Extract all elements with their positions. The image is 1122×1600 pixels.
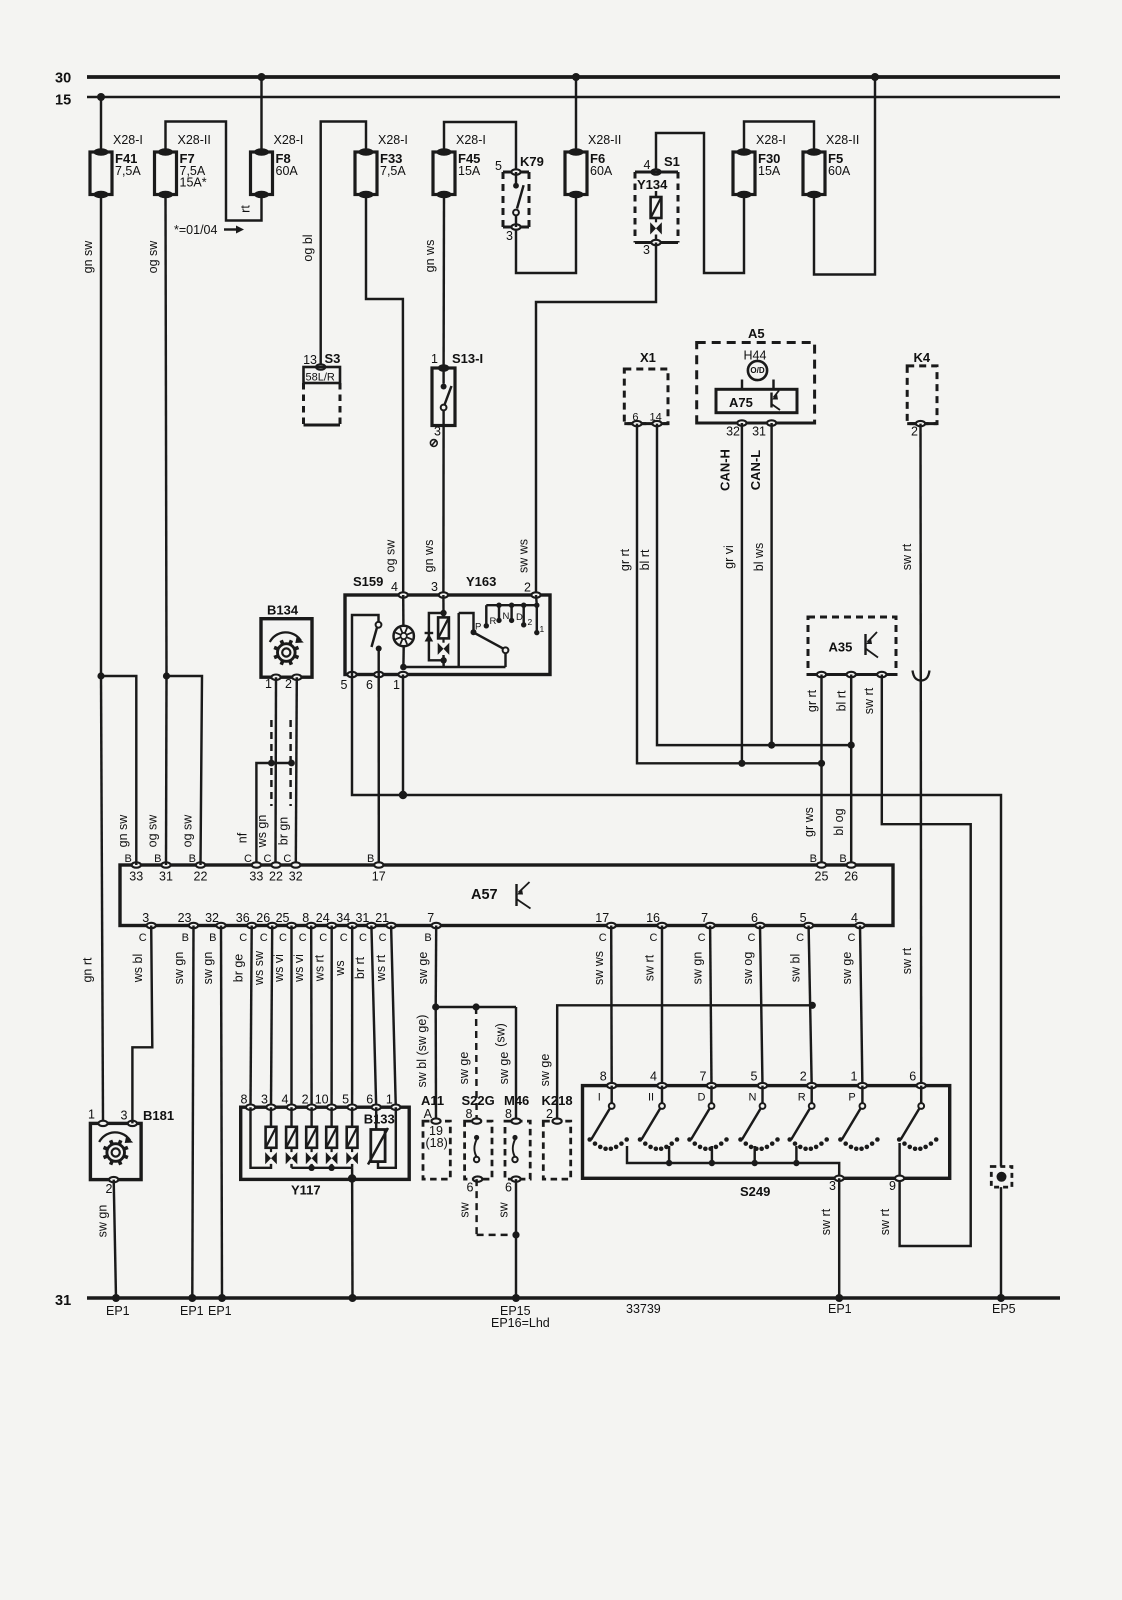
svg-text:26: 26 xyxy=(256,911,270,925)
S249 pin 6 xyxy=(917,1083,926,1088)
wire og sw to A57 B31 xyxy=(165,676,168,865)
A57 pin C34 xyxy=(348,923,357,928)
A57 pin C31 xyxy=(367,923,376,928)
svg-text:34: 34 xyxy=(336,911,350,925)
svg-text:EP1: EP1 xyxy=(208,1304,232,1318)
svg-text:22: 22 xyxy=(194,870,208,884)
svg-text:22: 22 xyxy=(269,870,283,884)
svg-text:bl rt: bl rt xyxy=(835,690,849,711)
svg-text:21: 21 xyxy=(375,911,389,925)
A57 pin C16 xyxy=(657,923,666,928)
Y117 solenoid valve at pin x=311.6 xyxy=(310,1107,312,1127)
A57 pin B7 xyxy=(432,923,441,928)
svg-text:sw: sw xyxy=(497,1201,511,1217)
svg-text:3: 3 xyxy=(643,243,650,257)
S249 switch contact for pin 6 xyxy=(920,1086,922,1104)
svg-text:sw rt: sw rt xyxy=(900,543,914,570)
svg-text:15A: 15A xyxy=(758,164,781,178)
svg-text:C: C xyxy=(748,932,756,944)
Y117 pin 2 xyxy=(307,1105,316,1110)
svg-text:7,5A: 7,5A xyxy=(115,164,141,178)
ground connector box on EP5 wire xyxy=(991,1167,1012,1188)
svg-text:B: B xyxy=(839,853,846,865)
svg-text:31: 31 xyxy=(355,911,369,925)
ground EP5 xyxy=(997,1294,1005,1302)
svg-text:B181: B181 xyxy=(143,1108,174,1123)
dashed variant wires at B134 xyxy=(270,720,272,806)
dashed wire sw ge to S22G pin 8 xyxy=(475,1007,478,1121)
svg-text:60A: 60A xyxy=(276,164,299,178)
svg-text:2: 2 xyxy=(106,1182,113,1196)
svg-text:26: 26 xyxy=(844,870,858,884)
S249 pin 8 xyxy=(607,1083,616,1088)
Y117 pin 3 xyxy=(266,1105,275,1110)
wire A57 to S249 sw gn xyxy=(710,926,711,1086)
svg-text:C: C xyxy=(244,853,252,865)
svg-text:4: 4 xyxy=(650,1070,657,1084)
svg-text:nf: nf xyxy=(236,832,250,843)
wire nf branch to A57 C33 xyxy=(256,763,291,865)
svg-text:A5: A5 xyxy=(748,326,765,341)
svg-text:ws vi: ws vi xyxy=(272,954,286,983)
svg-text:sw gn: sw gn xyxy=(172,952,186,985)
svg-text:B: B xyxy=(182,932,189,944)
svg-text:C: C xyxy=(796,932,804,944)
wire F41 gn sw down / junction xyxy=(100,195,102,677)
svg-text:N: N xyxy=(749,1092,757,1104)
svg-text:sw bl (sw ge): sw bl (sw ge) xyxy=(415,1015,429,1088)
wire gn rt to B181 pin 1 xyxy=(101,676,103,1121)
svg-text:S249: S249 xyxy=(740,1184,770,1199)
svg-text:2: 2 xyxy=(800,1070,807,1084)
S249 pin 7 xyxy=(707,1083,716,1088)
internal selector arm P xyxy=(471,629,477,635)
svg-text:X28-I: X28-I xyxy=(456,133,486,147)
wire A57 to S249 sw ws xyxy=(610,926,613,1086)
svg-text:5: 5 xyxy=(495,159,502,173)
svg-text:6: 6 xyxy=(505,1181,512,1195)
svg-text:2: 2 xyxy=(528,617,533,627)
svg-text:C: C xyxy=(260,932,268,944)
svg-text:4: 4 xyxy=(282,1093,289,1107)
S249 switch contact for pin 4 xyxy=(661,1086,663,1104)
fuse F6 xyxy=(565,152,587,195)
svg-text:C: C xyxy=(279,932,287,944)
svg-text:gn ws: gn ws xyxy=(422,540,436,573)
svg-text:60A: 60A xyxy=(590,164,613,178)
internal illumination lamp xyxy=(402,595,405,626)
selector switch S249 xyxy=(583,1086,950,1179)
svg-text:ws rt: ws rt xyxy=(313,954,327,982)
wire S159 pin 5 and pin 1 to EP5 rail xyxy=(352,675,1001,1167)
svg-text:X28-II: X28-II xyxy=(826,133,859,147)
svg-text:8: 8 xyxy=(466,1107,473,1121)
svg-text:A: A xyxy=(424,1107,433,1121)
svg-text:S159: S159 xyxy=(353,574,383,589)
svg-text:C: C xyxy=(319,932,327,944)
svg-text:32: 32 xyxy=(205,911,219,925)
Y117 solenoid valve at pin x=331.6 xyxy=(330,1107,332,1127)
internal ground rail xyxy=(403,666,505,668)
svg-text:sw rt: sw rt xyxy=(878,1208,892,1235)
fuse F8 xyxy=(251,152,273,195)
Y117 pin 5 xyxy=(348,1105,357,1110)
wire A57 to Y117 ws xyxy=(351,926,354,1108)
svg-text:P: P xyxy=(848,1092,855,1104)
wire A57 to Y117 ws rt xyxy=(330,926,333,1108)
S249 pin 1 xyxy=(858,1083,867,1088)
wire A35 sw rt to S249 pin 9 xyxy=(882,675,971,1247)
Y117 pin 1 xyxy=(391,1105,400,1110)
wire K4 pin 2 sw rt to S249 pin 6 xyxy=(919,424,922,1086)
wire sw ge to M46 pin 8 xyxy=(515,1007,517,1121)
svg-text:(sw): (sw) xyxy=(494,1023,508,1047)
wire F8 bottom rt to F7 top xyxy=(166,122,262,221)
svg-text:8: 8 xyxy=(241,1093,248,1107)
svg-text:X1: X1 xyxy=(640,350,656,365)
svg-text:R: R xyxy=(490,616,497,627)
valve block Y117 xyxy=(241,1107,410,1179)
wire A57 to Y117 br rt xyxy=(371,926,376,1108)
svg-text:B133: B133 xyxy=(364,1112,395,1127)
svg-text:C: C xyxy=(359,932,367,944)
svg-text:31: 31 xyxy=(55,1293,71,1309)
Y117 pin 8 xyxy=(246,1105,255,1110)
S249 switch contact for pin 5 xyxy=(761,1086,763,1104)
internal valve Y163 with diode xyxy=(442,595,445,613)
S249 switch contact for pin 2 xyxy=(810,1086,812,1104)
svg-text:4: 4 xyxy=(391,580,398,594)
svg-text:sw gn: sw gn xyxy=(201,952,215,985)
svg-text:30: 30 xyxy=(55,71,71,87)
S249 internal rail to pin 3 xyxy=(627,1146,839,1178)
svg-text:ws sw: ws sw xyxy=(252,950,266,986)
svg-text:R: R xyxy=(798,1092,806,1104)
sw ge horizontal rail xyxy=(436,1006,516,1008)
svg-text:gn rt: gn rt xyxy=(81,957,95,983)
svg-text:1: 1 xyxy=(540,624,545,634)
svg-text:32: 32 xyxy=(726,425,740,439)
svg-text:X28-I: X28-I xyxy=(378,133,408,147)
svg-text:8: 8 xyxy=(600,1070,607,1084)
A57 pin C4 xyxy=(855,923,864,928)
svg-text:C: C xyxy=(340,932,348,944)
dashed wire S22G pin 6 sw xyxy=(475,1179,477,1235)
svg-text:D: D xyxy=(698,1092,706,1104)
svg-text:5: 5 xyxy=(342,1093,349,1107)
svg-text:15A: 15A xyxy=(458,164,481,178)
S249 pin 5 xyxy=(758,1083,767,1088)
wire B181 pin 2 sw gn to ground EP1 xyxy=(114,1180,116,1298)
svg-text:M46: M46 xyxy=(504,1093,529,1108)
junction on bus 15 xyxy=(97,93,105,101)
svg-text:Y117: Y117 xyxy=(291,1183,321,1198)
svg-text:7: 7 xyxy=(700,1070,707,1084)
svg-text:EP5: EP5 xyxy=(992,1302,1016,1316)
A57 pin C24 xyxy=(327,923,336,928)
svg-text:32: 32 xyxy=(289,870,303,884)
svg-text:C: C xyxy=(283,853,291,865)
svg-text:5: 5 xyxy=(800,911,807,925)
wire bus 30 to F5 bottom loop xyxy=(814,77,875,275)
A57 pin B23 xyxy=(189,923,198,928)
svg-text:3: 3 xyxy=(142,911,149,925)
fuse F45 xyxy=(433,152,455,195)
wire A57 to Y117 br ge xyxy=(251,926,252,1108)
svg-text:X28-II: X28-II xyxy=(588,133,621,147)
module A35 xyxy=(808,617,896,675)
svg-text:6: 6 xyxy=(751,911,758,925)
svg-text:br rt: br rt xyxy=(353,956,367,979)
A57 pin C3 xyxy=(147,923,156,928)
S249 pin 2 xyxy=(807,1083,816,1088)
wire A57 to Y117 ws rt xyxy=(391,926,396,1108)
svg-text:gn ws: gn ws xyxy=(423,240,437,273)
svg-text:(18): (18) xyxy=(426,1136,448,1150)
svg-text:7: 7 xyxy=(427,911,434,925)
svg-text:8: 8 xyxy=(302,911,309,925)
svg-text:rt: rt xyxy=(239,205,253,213)
wire sw bl (sw ge) to A11 xyxy=(434,1007,437,1121)
svg-text:K218: K218 xyxy=(542,1093,573,1108)
svg-text:sw ws: sw ws xyxy=(592,951,606,985)
svg-text:X28-I: X28-I xyxy=(756,133,786,147)
svg-text:EP1: EP1 xyxy=(106,1304,130,1318)
svg-text:B: B xyxy=(209,932,216,944)
wire S159 pin 6 to A57 B17 xyxy=(377,675,380,866)
A57 pin C22 xyxy=(271,862,280,867)
A57 pin B26 xyxy=(847,862,856,867)
wire branch og sw to A57 B22 xyxy=(167,676,203,865)
A57 pin B32 xyxy=(216,923,225,928)
wire A57 to S249 sw og xyxy=(760,926,763,1086)
Y117 solenoid valve at pin x=271 xyxy=(270,1107,272,1127)
svg-text:B: B xyxy=(154,853,161,865)
svg-text:K4: K4 xyxy=(914,350,931,365)
svg-text:EP1: EP1 xyxy=(180,1304,204,1318)
svg-text:15: 15 xyxy=(55,93,71,109)
svg-text:1: 1 xyxy=(431,352,438,366)
A57 pin B33 xyxy=(132,862,141,867)
svg-text:3: 3 xyxy=(431,580,438,594)
svg-text:33: 33 xyxy=(129,870,143,884)
svg-text:C: C xyxy=(379,932,387,944)
svg-text:A35: A35 xyxy=(829,640,853,655)
svg-text:sw ge: sw ge xyxy=(497,1052,511,1085)
wire F30 bottom to S1 pin 4 xyxy=(656,133,744,273)
svg-text:1: 1 xyxy=(88,1108,95,1122)
svg-text:X28-I: X28-I xyxy=(113,133,143,147)
Y117 internal common rail xyxy=(290,1164,292,1168)
svg-text:58L/R: 58L/R xyxy=(306,372,335,384)
svg-text:2: 2 xyxy=(285,677,292,691)
A57 pin C6 xyxy=(755,923,764,928)
svg-text:ws: ws xyxy=(333,960,347,976)
fuse F5 xyxy=(803,152,825,195)
ground Y117 xyxy=(349,1294,357,1302)
svg-text:bl rt: bl rt xyxy=(638,549,652,570)
svg-text:2: 2 xyxy=(911,425,918,439)
svg-text:CAN-L: CAN-L xyxy=(748,450,763,490)
wire A57 to Y117 ws vi xyxy=(290,926,292,1108)
svg-text:og sw: og sw xyxy=(384,539,398,573)
wire B134 pin 1 ws gn to A57 C22 xyxy=(274,677,277,865)
A57 pin C8 xyxy=(307,923,316,928)
A57 pin C5 xyxy=(804,923,813,928)
sw bl horizontal rail to K218 xyxy=(557,1005,812,1121)
wire F41 top to bus 15 xyxy=(100,97,102,152)
Y117 pin 6 xyxy=(372,1105,381,1110)
wire A57 to S249 sw ge xyxy=(860,926,862,1086)
svg-text:5: 5 xyxy=(341,678,348,692)
svg-text:I: I xyxy=(598,1092,601,1104)
wire CAN-H gr vi xyxy=(741,423,743,764)
wire A57 B23 sw gn to EP1 xyxy=(192,926,193,1299)
svg-text:sw rt: sw rt xyxy=(643,954,657,981)
A57 pin C36 xyxy=(247,923,256,928)
svg-text:X28-II: X28-II xyxy=(178,133,211,147)
S249 pin 3 xyxy=(835,1176,844,1181)
svg-text:33739: 33739 xyxy=(626,1302,661,1316)
svg-text:EP1: EP1 xyxy=(828,1302,852,1316)
Y117 pin 10 xyxy=(327,1105,336,1110)
fuse F30 xyxy=(733,152,755,195)
svg-text:B: B xyxy=(189,853,196,865)
svg-text:ws rt: ws rt xyxy=(374,954,388,982)
svg-text:gr vi: gr vi xyxy=(722,545,736,569)
wire S249 pin 3 sw rt to EP1 xyxy=(838,1178,840,1298)
svg-text:3: 3 xyxy=(829,1179,836,1193)
svg-text:sw rt: sw rt xyxy=(819,1208,833,1235)
svg-text:36: 36 xyxy=(236,911,250,925)
S249 switch contact for pin 8 xyxy=(610,1086,612,1104)
svg-text:sw ws: sw ws xyxy=(517,539,531,573)
wire F30 top to F5 top xyxy=(744,122,814,153)
svg-text:A57: A57 xyxy=(471,887,498,903)
svg-text:3: 3 xyxy=(506,229,513,243)
svg-text:15A*: 15A* xyxy=(180,176,207,190)
wire A57 B7 sw ge down xyxy=(434,926,437,1008)
svg-text:sw rt: sw rt xyxy=(862,687,876,714)
svg-text:B: B xyxy=(367,853,374,865)
svg-text:C: C xyxy=(139,932,147,944)
svg-text:II: II xyxy=(648,1092,654,1104)
wire branch gn sw to A57 B33 xyxy=(101,676,136,865)
svg-text:X28-I: X28-I xyxy=(274,133,304,147)
wire F33 bottom og sw to S159 pin 4 xyxy=(366,195,403,593)
wire B134 pin 2 br gn to A57 C32 xyxy=(296,677,297,865)
svg-text:og sw: og sw xyxy=(181,814,195,848)
ground EP1 S249 xyxy=(835,1294,843,1302)
svg-text:sw ge: sw ge xyxy=(457,1052,471,1085)
A57 pin C17 xyxy=(607,923,616,928)
svg-text:O/D: O/D xyxy=(750,366,764,375)
wire A57 to S249 sw bl xyxy=(809,926,812,1086)
svg-text:25: 25 xyxy=(276,911,290,925)
svg-text:C: C xyxy=(848,932,856,944)
ground EP1 B181 xyxy=(112,1294,120,1302)
svg-text:B134: B134 xyxy=(267,603,299,618)
svg-text:B: B xyxy=(424,932,431,944)
wire gn ws F45 to S13-I xyxy=(442,195,445,369)
wire Y134 pin 3 to S159 pin 2 sw ws xyxy=(536,243,656,593)
svg-text:og sw: og sw xyxy=(146,240,160,274)
svg-text:Y134: Y134 xyxy=(637,177,668,192)
wire A57 to Y117 ws sw xyxy=(271,926,272,1108)
A57 pin C21 xyxy=(387,923,396,928)
svg-text:gn sw: gn sw xyxy=(81,240,95,274)
svg-text:og bl: og bl xyxy=(301,234,315,261)
svg-text:sw ge: sw ge xyxy=(538,1054,552,1087)
svg-text:4: 4 xyxy=(644,158,651,172)
fuse F41 xyxy=(90,152,112,195)
svg-text:sw: sw xyxy=(458,1201,472,1217)
svg-text:1: 1 xyxy=(393,678,400,692)
ground EP1 xyxy=(218,1294,226,1302)
S249 pin 4 xyxy=(657,1083,666,1088)
svg-text:sw gn: sw gn xyxy=(96,1205,110,1238)
svg-text:N: N xyxy=(503,611,510,622)
svg-text:C: C xyxy=(650,932,658,944)
wire A57 to S249 sw rt xyxy=(661,926,663,1086)
wire F45 top to K79 pin 5 xyxy=(444,122,516,172)
svg-text:gr rt: gr rt xyxy=(618,548,632,571)
S249 switch contact for pin 7 xyxy=(710,1086,712,1104)
module A75 xyxy=(716,389,797,412)
svg-text:P: P xyxy=(475,622,481,633)
wire S13-I to S159 pin 3 gn ws xyxy=(442,426,445,593)
wire F8 top to bus 30 xyxy=(260,77,262,152)
A57 pin C25 xyxy=(287,923,296,928)
svg-text:og sw: og sw xyxy=(146,814,160,848)
svg-text:3: 3 xyxy=(121,1109,128,1123)
fuse F7 xyxy=(155,152,177,195)
svg-text:br ge: br ge xyxy=(232,954,246,983)
wire F7 og sw down / junction xyxy=(166,195,167,677)
Y117 internal return to pin 8 xyxy=(251,1107,272,1168)
svg-text:S22G: S22G xyxy=(462,1093,495,1108)
A57 pin B31 xyxy=(161,862,170,867)
A57 pin C33 xyxy=(252,862,261,867)
svg-text:4: 4 xyxy=(851,911,858,925)
A57 pin C32 xyxy=(291,862,300,867)
svg-text:gr ws: gr ws xyxy=(802,807,816,837)
A57 pin C26 xyxy=(268,923,277,928)
svg-text:60A: 60A xyxy=(828,164,851,178)
svg-text:D: D xyxy=(516,612,523,623)
svg-text:CAN-H: CAN-H xyxy=(718,449,733,491)
svg-text:2: 2 xyxy=(302,1093,309,1107)
svg-text:ws bl: ws bl xyxy=(131,954,145,983)
fuse F33 xyxy=(355,152,377,195)
control unit A57 xyxy=(120,865,893,926)
svg-text:17: 17 xyxy=(595,911,609,925)
wire CAN-L bl ws xyxy=(770,423,772,745)
wire K79 pin 3 to F6 bottom xyxy=(516,195,576,274)
A57 pin B17 xyxy=(374,862,383,867)
wire A35 bl rt / bl og to A57 B26 xyxy=(850,675,852,866)
wire B181 pin 3 ws bl to A57 C3 xyxy=(132,926,152,1124)
svg-text:6: 6 xyxy=(366,678,373,692)
svg-text:sw ge: sw ge xyxy=(416,952,430,985)
junction on bus 30 at F8 xyxy=(258,73,266,81)
ground EP15 xyxy=(512,1294,520,1302)
wire A57 to Y117 ws vi xyxy=(310,926,313,1108)
Y117 solenoid valve at pin x=291.5 xyxy=(290,1107,292,1127)
svg-text:B: B xyxy=(124,853,131,865)
svg-text:br gn: br gn xyxy=(277,817,291,846)
wire Y117 return to ground xyxy=(351,1168,354,1298)
